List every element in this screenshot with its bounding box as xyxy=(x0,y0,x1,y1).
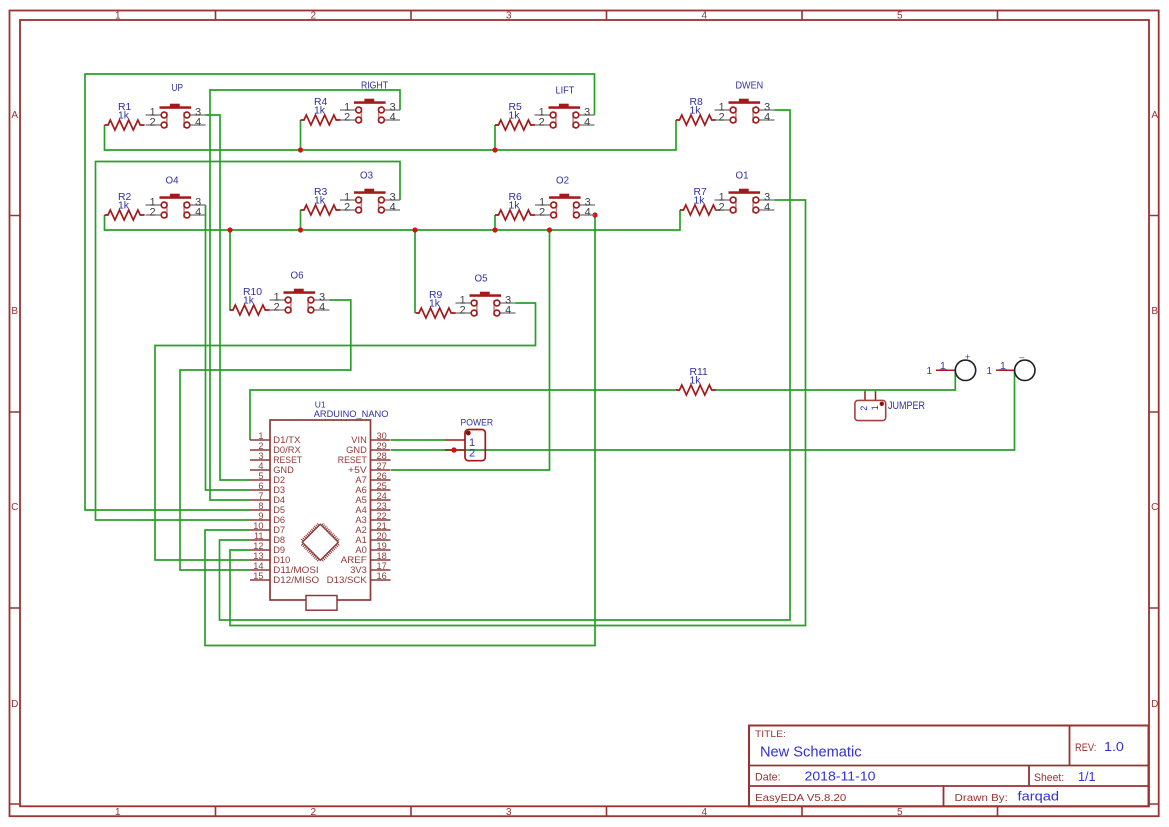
svg-text:D5: D5 xyxy=(273,505,285,515)
svg-text:New Schematic: New Schematic xyxy=(760,744,862,761)
svg-text:1k: 1k xyxy=(694,196,706,207)
wire R4 to row1 net xyxy=(300,120,302,150)
svg-text:GND: GND xyxy=(346,445,367,455)
svg-text:O2: O2 xyxy=(556,176,569,187)
svg-text:C: C xyxy=(11,502,18,513)
svg-text:1k: 1k xyxy=(314,196,326,207)
svg-text:3V3: 3V3 xyxy=(350,565,367,575)
resistor R6 1k xyxy=(495,192,535,220)
wire R5 to row1 net xyxy=(494,125,496,150)
wire JUMPER pin1 stub xyxy=(875,390,877,392)
svg-text:1k: 1k xyxy=(690,376,702,387)
wire DWEN pin3 to U1 D8 xyxy=(220,110,791,620)
svg-text:JUMPER: JUMPER xyxy=(888,400,925,412)
svg-text:17: 17 xyxy=(377,561,387,571)
svg-text:1: 1 xyxy=(940,360,946,372)
svg-text:4: 4 xyxy=(390,201,396,213)
svg-text:5: 5 xyxy=(258,471,263,481)
svg-text:–: – xyxy=(1019,352,1024,362)
svg-text:1k: 1k xyxy=(509,111,521,122)
wire R3 to row2 net xyxy=(300,210,302,230)
svg-text:DWEN: DWEN xyxy=(736,81,764,92)
junction xyxy=(451,447,456,452)
svg-text:U1: U1 xyxy=(315,399,326,409)
svg-text:2: 2 xyxy=(539,116,545,128)
pushbutton O4 xyxy=(146,176,206,219)
wire R11 to plus terminal xyxy=(716,371,955,390)
svg-text:A5: A5 xyxy=(355,495,366,505)
svg-text:3: 3 xyxy=(258,451,263,461)
wire R6 to row2 net xyxy=(494,215,496,230)
resistor R10 1k xyxy=(230,287,270,315)
svg-text:1: 1 xyxy=(986,366,992,377)
svg-text:D: D xyxy=(11,699,18,710)
svg-text:4: 4 xyxy=(505,304,511,316)
junction xyxy=(227,227,232,232)
svg-text:4: 4 xyxy=(584,116,590,128)
svg-text:UP: UP xyxy=(172,83,184,94)
svg-text:VIN: VIN xyxy=(351,435,367,445)
svg-text:A2: A2 xyxy=(355,525,366,535)
svg-text:4: 4 xyxy=(195,206,201,218)
svg-text:2: 2 xyxy=(719,111,725,123)
pushbutton UP xyxy=(146,83,206,128)
pushbutton O2 xyxy=(535,176,595,219)
svg-text:4: 4 xyxy=(701,807,707,818)
svg-text:5: 5 xyxy=(897,807,903,818)
junction xyxy=(547,227,552,232)
svg-text:TITLE:: TITLE: xyxy=(755,729,786,740)
svg-text:D8: D8 xyxy=(273,535,285,545)
svg-text:C: C xyxy=(1151,502,1158,513)
svg-text:2: 2 xyxy=(310,807,316,818)
svg-text:A3: A3 xyxy=(355,515,366,525)
resistor R11 1k xyxy=(676,367,716,395)
svg-text:AREF: AREF xyxy=(341,555,368,565)
svg-text:25: 25 xyxy=(377,481,387,491)
wire row2 net to U1 +5V xyxy=(391,230,550,470)
svg-text:RESET: RESET xyxy=(273,455,302,465)
svg-text:1k: 1k xyxy=(314,106,326,117)
svg-text:4: 4 xyxy=(764,201,770,213)
svg-text:20: 20 xyxy=(377,531,387,541)
resistor R1 1k xyxy=(105,102,145,130)
resistor R3 1k xyxy=(301,187,341,215)
svg-text:9: 9 xyxy=(258,511,263,521)
resistor R5 1k xyxy=(495,102,535,130)
svg-text:Drawn By:: Drawn By: xyxy=(955,793,1008,804)
junction at POWER pin2 xyxy=(451,447,456,452)
svg-text:3: 3 xyxy=(506,11,512,22)
svg-text:1k: 1k xyxy=(118,111,130,122)
resistor R8 1k xyxy=(676,97,716,125)
svg-text:1k: 1k xyxy=(118,201,130,212)
svg-text:O5: O5 xyxy=(475,274,488,285)
svg-text:A7: A7 xyxy=(355,475,366,485)
svg-text:4: 4 xyxy=(585,206,591,218)
svg-text:16: 16 xyxy=(377,571,387,581)
IC U1 ARDUINO_NANO xyxy=(250,399,391,610)
svg-text:D10: D10 xyxy=(273,555,290,565)
svg-text:D2: D2 xyxy=(273,475,285,485)
wire O1 pin3 to U1 D9 xyxy=(230,200,806,626)
svg-text:A0: A0 xyxy=(355,545,366,555)
svg-text:4: 4 xyxy=(390,111,396,123)
svg-text:2: 2 xyxy=(859,406,869,411)
junction xyxy=(592,212,597,217)
svg-text:B: B xyxy=(11,306,18,317)
connector + terminal xyxy=(926,352,975,380)
resistor R4 1k xyxy=(301,97,341,125)
junction xyxy=(412,227,417,232)
svg-text:O3: O3 xyxy=(360,171,373,182)
svg-text:A: A xyxy=(11,110,18,121)
wire O5 pin3 to U1 D10 xyxy=(155,303,536,560)
svg-text:26: 26 xyxy=(377,471,387,481)
pushbutton DWEN xyxy=(715,81,775,124)
svg-text:27: 27 xyxy=(377,461,387,471)
wire row2 net to R9 xyxy=(414,230,416,313)
wire U1 GND to minus terminal xyxy=(391,371,1015,450)
svg-text:14: 14 xyxy=(253,561,263,571)
svg-text:+: + xyxy=(965,352,970,362)
svg-text:ARDUINO_NANO: ARDUINO_NANO xyxy=(314,409,389,419)
pushbutton O1 xyxy=(715,171,775,214)
svg-text:O6: O6 xyxy=(291,271,304,282)
wire LIFT pin3 to U1 D5 xyxy=(85,74,595,510)
svg-text:2: 2 xyxy=(344,111,350,123)
svg-text:1k: 1k xyxy=(243,296,255,307)
svg-text:GND: GND xyxy=(273,465,294,475)
svg-text:D9: D9 xyxy=(273,545,285,555)
resistor R7 1k xyxy=(680,187,720,215)
svg-text:2: 2 xyxy=(344,201,350,213)
wire O3 pin3 to U1 D6 xyxy=(96,162,401,521)
svg-text:LIFT: LIFT xyxy=(556,86,575,97)
svg-text:2: 2 xyxy=(469,448,475,460)
svg-text:11: 11 xyxy=(254,531,264,541)
title block xyxy=(749,726,1149,807)
wire row2 net to R10 xyxy=(229,230,231,310)
svg-text:24: 24 xyxy=(377,491,387,501)
svg-text:D4: D4 xyxy=(273,495,285,505)
svg-text:RIGHT: RIGHT xyxy=(361,81,389,92)
svg-text:18: 18 xyxy=(377,551,387,561)
svg-text:RESET: RESET xyxy=(338,455,367,465)
wire JUMPER pin2 stub xyxy=(864,390,866,392)
wire row1 bottom net xyxy=(105,120,677,150)
svg-text:21: 21 xyxy=(377,521,387,531)
svg-text:1.0: 1.0 xyxy=(1104,740,1124,754)
wire U1 VIN to POWER pin1 xyxy=(391,439,445,441)
svg-text:D1/TX: D1/TX xyxy=(273,435,300,445)
svg-text:7: 7 xyxy=(258,491,263,501)
pushbutton O3 xyxy=(340,171,400,214)
svg-text:1/1: 1/1 xyxy=(1078,770,1096,784)
wire RIGHT pin3 to U1 D4 xyxy=(210,90,400,500)
wire row2 bottom net xyxy=(105,210,681,230)
svg-text:A6: A6 xyxy=(355,485,366,495)
pushbutton RIGHT xyxy=(340,81,400,124)
svg-text:EasyEDA V5.8.20: EasyEDA V5.8.20 xyxy=(755,793,847,804)
connector - terminal xyxy=(986,352,1035,380)
svg-text:D13/SCK: D13/SCK xyxy=(327,575,368,585)
svg-text:5: 5 xyxy=(897,11,903,22)
svg-text:A: A xyxy=(1151,110,1158,121)
connector POWER xyxy=(445,417,493,460)
svg-text:1k: 1k xyxy=(429,299,441,310)
svg-text:D0/RX: D0/RX xyxy=(273,445,301,455)
svg-text:30: 30 xyxy=(377,431,387,441)
svg-text:2: 2 xyxy=(310,11,316,22)
svg-text:farqad: farqad xyxy=(1018,790,1060,804)
svg-text:6: 6 xyxy=(258,481,263,491)
wire O6 pin3 to U1 D11 xyxy=(180,300,351,570)
svg-text:4: 4 xyxy=(258,461,263,471)
svg-text:Sheet:: Sheet: xyxy=(1034,772,1064,784)
junction xyxy=(492,227,497,232)
junction xyxy=(492,147,497,152)
svg-text:1: 1 xyxy=(115,807,121,818)
svg-text:2: 2 xyxy=(539,206,545,218)
pushbutton O6 xyxy=(270,271,330,314)
svg-text:12: 12 xyxy=(253,541,263,551)
pushbutton LIFT xyxy=(535,86,595,129)
connector JUMPER xyxy=(855,392,925,421)
svg-text:4: 4 xyxy=(195,116,201,128)
svg-text:10: 10 xyxy=(253,521,263,531)
resistor R9 1k xyxy=(416,290,456,318)
svg-text:D12/MISO: D12/MISO xyxy=(273,575,319,585)
svg-text:2: 2 xyxy=(150,116,156,128)
svg-text:D3: D3 xyxy=(273,485,285,495)
svg-text:2: 2 xyxy=(258,441,263,451)
svg-text:8: 8 xyxy=(258,501,263,511)
svg-text:1k: 1k xyxy=(690,106,702,117)
junction xyxy=(298,227,303,232)
resistor R2 1k xyxy=(105,192,145,220)
svg-text:2: 2 xyxy=(719,201,725,213)
svg-text:4: 4 xyxy=(701,11,707,22)
svg-text:REV:: REV: xyxy=(1075,742,1096,754)
svg-text:4: 4 xyxy=(764,111,770,123)
svg-text:Date:: Date: xyxy=(755,771,781,783)
svg-text:23: 23 xyxy=(377,501,387,511)
svg-text:15: 15 xyxy=(253,571,263,581)
svg-text:19: 19 xyxy=(377,541,387,551)
svg-text:2: 2 xyxy=(460,304,466,316)
svg-text:28: 28 xyxy=(377,451,387,461)
svg-text:A1: A1 xyxy=(355,535,366,545)
wire O4 pin3 to U1 D3 xyxy=(206,205,251,490)
svg-text:4: 4 xyxy=(319,301,325,313)
svg-text:1: 1 xyxy=(870,405,880,410)
wire UP pin3 to U1 D2 xyxy=(206,115,251,480)
svg-text:1: 1 xyxy=(115,11,121,22)
svg-text:1: 1 xyxy=(926,366,932,377)
svg-text:1: 1 xyxy=(258,431,263,441)
svg-text:D6: D6 xyxy=(273,515,285,525)
svg-text:O1: O1 xyxy=(736,171,749,182)
svg-text:1k: 1k xyxy=(509,201,521,212)
svg-text:D: D xyxy=(1151,699,1158,710)
svg-text:13: 13 xyxy=(253,551,263,561)
svg-text:A4: A4 xyxy=(355,505,366,515)
svg-text:POWER: POWER xyxy=(461,417,494,427)
svg-text:1: 1 xyxy=(1000,360,1006,372)
wire U1 D1/TX to R11 xyxy=(250,390,676,440)
svg-text:D7: D7 xyxy=(273,525,285,535)
svg-text:3: 3 xyxy=(506,807,512,818)
svg-text:O4: O4 xyxy=(166,176,179,187)
svg-text:22: 22 xyxy=(377,511,387,521)
svg-text:+5V: +5V xyxy=(348,465,368,475)
svg-text:2: 2 xyxy=(274,301,280,313)
svg-text:2018-11-10: 2018-11-10 xyxy=(805,768,876,783)
pushbutton O5 xyxy=(456,274,516,317)
wire O2 pin4 to U1 D7 xyxy=(205,215,595,646)
svg-text:2: 2 xyxy=(150,206,156,218)
junction xyxy=(298,147,303,152)
svg-text:B: B xyxy=(1151,306,1158,317)
svg-text:D11/MOSI: D11/MOSI xyxy=(273,565,319,575)
svg-text:29: 29 xyxy=(377,441,387,451)
